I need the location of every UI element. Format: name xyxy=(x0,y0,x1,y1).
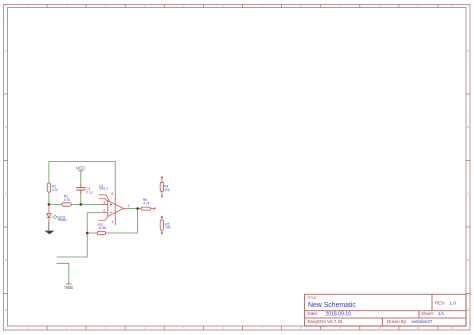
svg-text:webdes27: webdes27 xyxy=(412,319,433,324)
svg-text:REV:: REV: xyxy=(435,300,446,305)
svg-text:DA1.1: DA1.1 xyxy=(99,187,108,191)
svg-text:D: D xyxy=(5,258,7,262)
svg-text:1: 1 xyxy=(128,204,130,208)
svg-text:10k: 10k xyxy=(165,226,171,230)
svg-text:1.0: 1.0 xyxy=(450,300,457,305)
svg-text:0.1u: 0.1u xyxy=(86,190,92,194)
svg-text:D: D xyxy=(467,258,469,262)
svg-text:A: A xyxy=(467,49,469,53)
svg-text:2018-09-10: 2018-09-10 xyxy=(326,311,352,317)
svg-text:4.7k: 4.7k xyxy=(143,201,149,205)
svg-text:A: A xyxy=(5,49,7,53)
svg-text:2: 2 xyxy=(103,209,105,213)
svg-text:C: C xyxy=(467,192,469,196)
svg-text:C: C xyxy=(5,192,7,196)
svg-text:New Schematic: New Schematic xyxy=(308,302,356,309)
svg-text:B: B xyxy=(5,125,7,129)
svg-text:Sheet:: Sheet: xyxy=(421,311,434,316)
svg-text:4: 4 xyxy=(112,220,114,224)
svg-text:E: E xyxy=(5,308,7,312)
svg-text:VCC: VCC xyxy=(76,165,85,170)
svg-text:Drawn By:: Drawn By: xyxy=(387,319,407,324)
svg-text:B: B xyxy=(467,125,469,129)
svg-text:Green: Green xyxy=(58,218,67,222)
svg-text:8: 8 xyxy=(112,192,114,196)
svg-text:Date:: Date: xyxy=(308,311,319,316)
svg-text:11.8k: 11.8k xyxy=(98,226,106,230)
svg-text:TITLE:: TITLE: xyxy=(307,296,317,300)
svg-text:10k: 10k xyxy=(164,188,170,192)
svg-text:E: E xyxy=(467,308,469,312)
svg-text:VEE: VEE xyxy=(64,285,73,290)
svg-text:4.7k: 4.7k xyxy=(52,188,58,192)
svg-text:1/1: 1/1 xyxy=(438,311,445,316)
svg-text:3: 3 xyxy=(103,201,105,205)
svg-text:EasyEDA V5.7.26: EasyEDA V5.7.26 xyxy=(308,319,343,324)
svg-text:4.7k: 4.7k xyxy=(64,198,70,202)
